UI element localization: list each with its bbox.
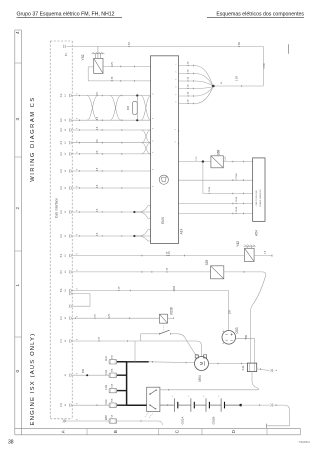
S59 diagonal (211, 266, 224, 279)
wire K038 right elbow (178, 334, 198, 356)
frame bottom strip divider x87 (86, 429, 88, 435)
row tick a y236.0 (79, 235, 81, 237)
G03 out elbow down (254, 339, 256, 363)
pin tick ECU left y153.9 (150, 153, 152, 155)
wire cab to ECU y130.0 (72, 129, 150, 131)
svg-text:30B: 30B (127, 105, 130, 110)
row tick a y130.0 (79, 129, 81, 131)
M54 terminal sq right (204, 355, 207, 358)
twisted pair rows130-142 x146 (142, 130, 151, 143)
junction node before S68 (202, 160, 204, 162)
fan wire pin2 (179, 74, 214, 87)
connector at cab boundary y171.0 (69, 169, 71, 172)
connector battery out (271, 404, 273, 407)
svg-text:6: 6 (77, 92, 79, 94)
ECU pin right y213.4 (178, 213, 180, 215)
battery cell 4 (220, 398, 222, 412)
pin tick ECU left y95.5 (150, 95, 152, 97)
bus stub y405.2 (117, 404, 127, 406)
svg-text:25R: 25R (83, 369, 85, 374)
svg-text:B: B (113, 430, 118, 433)
frame bottom strip divider x267 (266, 429, 268, 435)
fan wire tick pin3 (193, 80, 195, 82)
cab boundary dashed left (49, 41, 51, 419)
connector at cab boundary y188.0 (69, 186, 71, 189)
FH2 right tick2 (185, 362, 187, 364)
FH2 right tick (152, 361, 154, 363)
svg-text:C: C (175, 429, 180, 433)
svg-text:8: 8 (152, 117, 154, 119)
svg-text:EB8: EB8 (104, 415, 108, 420)
ECU A14 box (151, 56, 179, 244)
svg-text:10A: 10A (111, 368, 114, 372)
svg-text:8: 8 (152, 185, 154, 187)
svg-text:C:2: C:2 (60, 316, 63, 320)
K038 link dash (163, 323, 165, 330)
pin tick ECU left y80.9 (150, 80, 152, 82)
connector at cab boundary y236.0 (69, 234, 71, 237)
svg-text:0.5: 0.5 (96, 208, 99, 212)
svg-text:4: 4 (77, 338, 79, 340)
svg-text:12: 12 (65, 152, 67, 155)
frame left strip divider y337 (15, 336, 22, 338)
row tick a y95.5 (79, 95, 81, 97)
fan wire pin3 (179, 81, 214, 87)
svg-text:Cab interface: Cab interface (55, 198, 59, 218)
svg-text:FRAME HARNESS: FRAME HARNESS (259, 189, 262, 207)
svg-text:6: 6 (77, 127, 79, 129)
svg-text:+: + (218, 395, 221, 397)
svg-text:0.75: 0.75 (188, 61, 190, 66)
tick y318.2 a (75, 317, 77, 319)
svg-text:0.75: 0.75 (188, 91, 190, 96)
svg-text:FH4: FH4 (104, 399, 108, 404)
wire ECU-A54 y203.4 (179, 202, 253, 204)
X11 connector (271, 369, 273, 372)
svg-text:5A: 5A (111, 415, 114, 418)
svg-text:S59: S59 (205, 259, 209, 265)
loop bottom horiz (141, 340, 197, 342)
svg-text:6: 6 (77, 117, 79, 119)
fuse EB8 body (109, 419, 117, 423)
twisted pair rows95-120 x92 (87, 96, 98, 121)
svg-text:0.5: 0.5 (96, 150, 99, 154)
svg-text:WIRING DIAGRAM CS: WIRING DIAGRAM CS (30, 96, 36, 181)
FH2 right wire thin (149, 361, 195, 364)
connector y255.6 (69, 254, 71, 257)
svg-text:12: 12 (65, 141, 67, 144)
tick y318.2 b (128, 317, 130, 319)
wire ECU-A54 y213.4 (179, 212, 253, 214)
svg-text:6: 6 (77, 233, 79, 235)
loop left horiz (141, 333, 157, 335)
header right underline (207, 16, 304, 18)
frame left strip top tick (15, 29, 22, 31)
X11 box (247, 363, 256, 372)
svg-text:8: 8 (152, 151, 154, 153)
svg-text:4: 4 (77, 287, 79, 289)
frame bottom strip lower line (15, 434, 301, 436)
svg-text:0.5: 0.5 (96, 126, 99, 130)
G03 inner marks (226, 333, 233, 340)
fan y236 up (135, 230, 151, 236)
ticks y180.2 (232, 179, 234, 181)
wire ECU-A54 y180.2 (179, 179, 253, 181)
fuse FH2 body (109, 360, 117, 364)
bus to switch thick (127, 404, 147, 406)
svg-text:4: 4 (77, 252, 79, 254)
fan y236 dn (135, 236, 151, 241)
svg-text:M: M (199, 361, 204, 365)
A54 pin ticks (252, 161, 254, 163)
battery cell 1 (173, 398, 175, 412)
battery cell 2 (190, 398, 192, 412)
connector y271.9 (69, 270, 71, 273)
svg-text:12: 12 (65, 94, 67, 97)
wire EB8 right (117, 420, 158, 422)
row tick b y95.5 (101, 95, 103, 97)
svg-text:1.5R: 1.5R (128, 42, 131, 47)
K038 coil right stub (168, 317, 174, 319)
svg-text:FH1: FH1 (104, 369, 108, 374)
svg-text:FH3: FH3 (104, 384, 108, 389)
fuse FH1 body (109, 373, 117, 377)
svg-text:B:6: B:6 (60, 288, 63, 292)
cab boundary dashed right (71, 41, 73, 419)
svg-text:Esquemas elétricos dos compone: Esquemas elétricos dos componentes (216, 12, 304, 18)
svg-text:FH2: FH2 (104, 356, 108, 361)
elbow x228.6 down to G03 (228, 291, 230, 331)
switch top out tick (168, 389, 170, 391)
wire to EB8 left (66, 420, 109, 422)
svg-text:0.75: 0.75 (167, 251, 169, 256)
frame bottom strip divider x202 (201, 429, 203, 435)
svg-text:M54: M54 (198, 375, 202, 381)
S59 out tick (243, 271, 245, 273)
svg-text:8: 8 (152, 168, 154, 170)
Y52 coil hatch (92, 52, 105, 54)
wire cab to ECU y120.2 (72, 119, 150, 121)
svg-text:10: 10 (65, 419, 67, 422)
frame left strip inner line (21, 30, 23, 435)
svg-text:16SB: 16SB (173, 285, 176, 291)
svg-text:4: 4 (176, 85, 178, 87)
Y52 coil stem (97, 46, 99, 58)
tick y255.6 b (184, 255, 186, 257)
header left underline (17, 16, 123, 18)
row tick a y142.7 (79, 142, 81, 144)
svg-text:8: 8 (152, 127, 154, 129)
svg-text:B:4: B:4 (60, 269, 63, 273)
connector y375 (69, 374, 71, 377)
svg-text:A:2: A:2 (60, 128, 63, 132)
switch out tick (167, 404, 169, 406)
tick battery out (259, 404, 261, 406)
M54 terminal sq left (195, 355, 198, 358)
vert wire from S68 junction (202, 162, 204, 194)
svg-text:30A: 30A (111, 398, 114, 402)
svg-text:0.75: 0.75 (108, 313, 111, 318)
svg-text:D: D (231, 429, 236, 433)
connector at cab boundary y130.0 (69, 128, 71, 131)
svg-text:12: 12 (65, 186, 67, 189)
ECU right pin tick y65.6 (178, 65, 180, 67)
svg-text:0.75: 0.75 (225, 156, 227, 161)
svg-text:10A: 10A (111, 384, 114, 388)
tick y341 (127, 340, 129, 342)
svg-text:15A: 15A (111, 355, 114, 359)
junction dot y236 (133, 235, 135, 237)
svg-text:8: 8 (152, 140, 154, 142)
loop left vertical (140, 334, 142, 341)
fuse FH3 body (109, 388, 117, 392)
svg-text:B+: B+ (223, 330, 225, 332)
fan wire tick pin4 (193, 88, 195, 90)
svg-text:10: 10 (65, 270, 67, 273)
svg-text:6: 6 (77, 151, 79, 153)
row tick a y120.2 (79, 119, 81, 121)
svg-text:B:1: B:1 (65, 52, 68, 56)
svg-text:CAB TO ENGINE: CAB TO ENGINE (255, 190, 258, 206)
Y52 valve box (94, 58, 103, 73)
stub top right (288, 44, 290, 54)
M54 wire right (209, 363, 248, 365)
switch top out wire y389.8 (160, 389, 232, 391)
svg-text:0.75: 0.75 (99, 336, 101, 341)
A54 box (253, 158, 265, 222)
ECU right pin tick y103.5 (178, 103, 180, 105)
svg-text:+: + (187, 395, 190, 397)
vert from loop to FH2row (134, 341, 136, 362)
twisted pair rows95-120 x146 (141, 96, 151, 121)
svg-text:G01B: G01B (212, 417, 216, 425)
connector U jog top (69, 292, 71, 295)
ticks y193.4 (232, 193, 234, 195)
Y52 right wire tick1 (120, 66, 122, 68)
fan wire tick pin5 (193, 95, 195, 97)
svg-text:B:2: B:2 (60, 253, 63, 257)
fan wire tick pin1 (193, 65, 195, 67)
tick S68 out1 (232, 161, 234, 163)
K038 contact left stub (157, 333, 160, 335)
row tick b y130.0 (101, 129, 103, 131)
K038 contact right stub (171, 333, 178, 335)
svg-text:16R: 16R (246, 334, 248, 339)
svg-text:A54: A54 (255, 230, 259, 236)
fan y236 pin ticks (150, 229, 152, 231)
svg-text:1.5R: 1.5R (262, 63, 266, 69)
svg-text:0.75SB: 0.75SB (236, 173, 238, 181)
fan y212 mid (135, 211, 151, 213)
S59 out wire (224, 271, 262, 273)
pin tick ECU left y188.0 (150, 187, 152, 189)
svg-text:10: 10 (65, 316, 67, 319)
switch link dashes (145, 413, 149, 418)
Y52 wire right to ECU y66 (103, 65, 151, 67)
wire y341 from cab (72, 340, 141, 342)
svg-text:0.5: 0.5 (96, 139, 99, 143)
Y52 coil legs (95, 54, 97, 59)
svg-text:0.75: 0.75 (95, 314, 97, 319)
svg-text:1: 1 (176, 63, 178, 65)
row tick c y120.2 (121, 119, 123, 121)
svg-text:1.5R: 1.5R (237, 42, 241, 48)
svg-text:4: 4 (77, 315, 79, 317)
svg-text:A:2: A:2 (60, 186, 63, 190)
svg-text:12: 12 (65, 234, 67, 237)
wire y290.5 (72, 290, 228, 292)
svg-text:16: 16 (221, 81, 223, 84)
svg-text:6: 6 (77, 168, 79, 170)
svg-text:10: 10 (65, 339, 67, 342)
svg-text:4: 4 (77, 372, 79, 374)
svg-text:0.5: 0.5 (96, 167, 99, 171)
svg-text:1.5R: 1.5R (235, 76, 239, 82)
svg-text:9: 9 (175, 140, 177, 142)
connector top wire (63, 45, 65, 48)
connector at cab boundary y120.2 (69, 119, 71, 122)
wire S68 to A54 (223, 161, 252, 163)
wire cab to dot y212 (72, 211, 134, 213)
Y42 coil stem (246, 246, 248, 248)
svg-text:0.75SB: 0.75SB (236, 196, 238, 204)
battery cell link 3 (209, 404, 221, 406)
svg-text:A14: A14 (180, 228, 184, 234)
loop elbow to M54 (197, 341, 202, 356)
svg-text:0.75: 0.75 (196, 156, 198, 161)
svg-text:6: 6 (176, 100, 178, 102)
fan y212 pin ticks (150, 205, 152, 207)
tick M54 right (217, 363, 219, 365)
svg-text:G03: G03 (235, 327, 239, 333)
connector at cab boundary y142.7 (69, 141, 71, 144)
row tick c y142.7 (121, 142, 123, 144)
svg-text:12: 12 (65, 128, 67, 131)
row tick b y212.0 (101, 211, 103, 213)
connector U jog bottom (69, 305, 71, 308)
bus stub y361.8 (117, 361, 127, 363)
svg-text:0.5: 0.5 (96, 232, 99, 236)
tick y271.9 a (141, 271, 143, 273)
S68 box (211, 156, 223, 168)
svg-text:0.75: 0.75 (111, 62, 114, 67)
bus stub y390.6 (117, 390, 127, 392)
svg-text:Grupo 37 Esquema elétrico FM,: Grupo 37 Esquema elétrico FM, FH, NH12 (17, 12, 115, 18)
fan wire pin5 (179, 87, 214, 96)
S59 box (211, 266, 224, 279)
pin tick ECU left y171.0 (150, 170, 152, 172)
junction node fan (212, 85, 215, 88)
battery cell link 2 (194, 404, 206, 406)
svg-text:6: 6 (77, 140, 79, 142)
fan wire tick pin2 (193, 73, 195, 75)
ECU pin right y203.4 (178, 203, 180, 205)
svg-text:0.75: 0.75 (188, 69, 190, 74)
connector y421 (63, 419, 65, 422)
junction dot y212 (133, 211, 135, 213)
row tick c y236.0 (121, 235, 123, 237)
ECU pin right y161.6 (178, 161, 180, 163)
svg-text:T3039611: T3039611 (299, 440, 311, 444)
cab boundary dashed top (50, 40, 72, 42)
svg-text:4: 4 (15, 31, 20, 34)
fan y212 up (135, 206, 151, 212)
tick y290.5 (129, 290, 131, 292)
svg-text:4: 4 (77, 418, 79, 420)
connector y341 (69, 339, 71, 342)
junction dot y375 (86, 374, 88, 376)
ticks y203.4 (232, 203, 234, 205)
svg-text:A:2: A:2 (60, 169, 63, 173)
wire y318.2 (72, 317, 159, 319)
Y42 out wire (254, 255, 272, 257)
frame left strip outer line (14, 30, 16, 435)
twisted pair rows95-120 x115 (110, 96, 121, 121)
row tick b y188.0 (101, 187, 103, 189)
row tick c y130.0 (121, 129, 123, 131)
tick y271.9 b (151, 271, 153, 273)
wire cab to ECU y171.0 (72, 170, 150, 172)
pin tick ECU left y130.0 (150, 129, 152, 131)
connector y405 (69, 404, 71, 407)
Y52 right wire tick2 (133, 66, 135, 68)
row tick c y153.9 (121, 153, 123, 155)
svg-text:12: 12 (65, 169, 67, 172)
X11 right tick (260, 368, 262, 370)
svg-text:3: 3 (15, 117, 20, 120)
connector y318.2 (69, 317, 71, 320)
svg-text:K038: K038 (170, 307, 174, 315)
svg-text:3: 3 (176, 78, 178, 80)
row tick b y171.0 (101, 170, 103, 172)
wire to FH4 left (72, 404, 109, 406)
fan wire pin4 (179, 87, 214, 89)
switch blade upper (150, 390, 156, 394)
svg-text:4: 4 (77, 402, 79, 404)
pin tick ECU left y66 (150, 66, 152, 68)
svg-text:0.75: 0.75 (167, 267, 169, 272)
tick S68 out2 (243, 161, 245, 163)
Y52 valve diagonal (94, 58, 103, 73)
wire cab to ECU y95.5 (72, 95, 150, 97)
tick y255.6 a (141, 255, 143, 257)
svg-text:0.75: 0.75 (188, 99, 190, 104)
K038 contact ticks (159, 333, 161, 335)
wire cab to ECU y188.0 (72, 187, 150, 189)
tick on wire right of junction (241, 85, 243, 87)
right column vertical wire (262, 46, 264, 86)
Y52 lower wire tick1 (120, 80, 122, 82)
connector at cab boundary y95.5 (69, 94, 71, 97)
row tick c y95.5 (121, 95, 123, 97)
ECU pin right y180.2 (178, 179, 180, 181)
svg-text:2: 2 (15, 206, 20, 209)
svg-text:38: 38 (8, 440, 14, 446)
FH2 right wire (117, 361, 149, 363)
ECU right pin tick2 y131.0 (178, 130, 180, 132)
row tick b y236.0 (101, 235, 103, 237)
wire y255.6 (72, 255, 244, 257)
frame left strip divider y63 (15, 62, 22, 64)
S59 elbow down (251, 272, 266, 363)
X11 bottom wire left (232, 389, 259, 391)
svg-text:12: 12 (65, 210, 67, 213)
pin tick ECU left y142.7 (150, 142, 152, 144)
S68 diagonal (211, 156, 223, 168)
bus bar vertical (126, 362, 128, 405)
row tick b y153.9 (101, 153, 103, 155)
svg-text:G01A: G01A (181, 417, 185, 425)
